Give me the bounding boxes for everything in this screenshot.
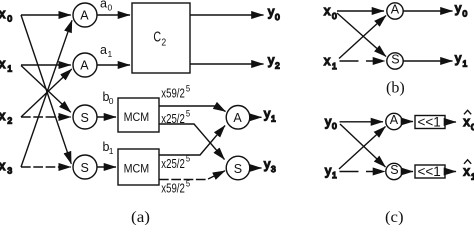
input label x0 (0, 7, 12, 23)
output label y3 (264, 158, 276, 175)
wire x3 to subtractor S2 dashed (21, 166, 71, 168)
wire MCM2 x25 output to adder A3 (159, 126, 225, 156)
wire c y0 to adder A5 (340, 121, 384, 123)
svg-text:x: x (464, 115, 471, 129)
svg-text:0: 0 (275, 12, 280, 22)
svg-text:y: y (455, 52, 462, 66)
value label x25/2^5 on MCM1 bottom output (161, 109, 190, 126)
wire MCM1 x25 output to subtractor S3 (159, 124, 225, 160)
svg-text:S: S (234, 162, 242, 176)
svg-text:a: a (100, 0, 107, 11)
wire A3 to y1 (250, 116, 262, 118)
svg-text:0: 0 (7, 13, 12, 23)
svg-text:5: 5 (186, 178, 190, 188)
value label x25/2^5 on MCM2 top output (161, 154, 190, 171)
value label x59/2^5 on MCM2 bottom output (161, 178, 190, 195)
svg-text:y: y (455, 2, 462, 16)
svg-text:2: 2 (275, 61, 280, 71)
subtractor S5 (386, 163, 402, 180)
svg-text:(a): (a) (131, 209, 150, 225)
subtractor S3 (226, 156, 250, 180)
svg-text:y: y (264, 158, 271, 172)
svg-text:3: 3 (271, 164, 276, 174)
wire x2 to adder A2 diagonal (21, 69, 72, 117)
wire A4 to y0 (403, 10, 452, 12)
wire x0 to subtractor S2 diagonal (21, 15, 71, 164)
node label a0 (100, 0, 113, 13)
node label a1 (100, 43, 113, 59)
wire x3 to adder A1 diagonal (21, 20, 72, 167)
svg-text:x59/2: x59/2 (161, 86, 185, 101)
wire S1 to MCM1 (97, 116, 116, 118)
wire b x1 to adder A4 diagonal (339, 16, 386, 59)
svg-text:1: 1 (271, 114, 276, 124)
wire S2 to MCM2 (97, 166, 116, 168)
wire b x0 to subtractor S4 diagonal (337, 13, 386, 57)
svg-text:1: 1 (332, 170, 337, 180)
svg-text:MCM: MCM (124, 110, 150, 124)
svg-text:0: 0 (463, 9, 468, 19)
svg-text:MCM: MCM (124, 161, 150, 175)
shifter block 1 (415, 114, 445, 129)
svg-text:x: x (0, 109, 6, 123)
output label y0 (268, 5, 280, 22)
svg-text:x: x (0, 7, 6, 21)
svg-text:3: 3 (7, 165, 12, 175)
svg-text:a: a (100, 43, 107, 57)
svg-text:0: 0 (108, 3, 113, 13)
svg-text:S: S (81, 111, 89, 125)
wire b x0 to adder A4 (337, 10, 384, 12)
svg-text:A: A (80, 8, 89, 22)
svg-text:<<1: <<1 (418, 164, 441, 179)
svg-text:x: x (0, 159, 6, 173)
svg-text:y: y (264, 107, 271, 121)
svg-text:S: S (390, 163, 398, 177)
svg-text:1: 1 (7, 63, 12, 73)
subtractor S2 (73, 155, 97, 179)
wire shifter 1 to x0hat (445, 121, 456, 123)
input label y1 part c (325, 164, 337, 180)
input label x0 part b (324, 4, 337, 21)
input label x3 (0, 159, 12, 175)
adder A5 (386, 113, 402, 130)
svg-text:2: 2 (7, 115, 12, 125)
svg-text:S: S (81, 161, 89, 175)
svg-text:C: C (153, 30, 161, 46)
svg-text:y: y (325, 164, 332, 178)
svg-text:x: x (0, 57, 6, 71)
svg-text:5: 5 (186, 83, 190, 93)
wire x0 to adder A1 (21, 14, 71, 16)
svg-text:0: 0 (332, 121, 337, 131)
output label y0 part b (455, 2, 468, 19)
block C2 (132, 3, 190, 73)
svg-text:0: 0 (332, 11, 337, 21)
wire MCM2 x59 output to subtractor S3 dashed (159, 171, 225, 180)
wire c y1 to subtractor S5 dashed (340, 171, 386, 173)
wire S3 to y3 (250, 167, 262, 169)
wire S4 to y1 (403, 60, 452, 62)
wire C2 to y2 (190, 63, 264, 65)
output label y2 (268, 54, 280, 71)
wire b x1 to subtractor S4 dashed (340, 60, 386, 62)
input label x1 (0, 57, 12, 73)
svg-text:x: x (324, 4, 331, 18)
adder A3 (226, 106, 250, 130)
shifter block 2 (415, 164, 445, 179)
svg-text:A: A (390, 113, 399, 127)
svg-text:A: A (80, 58, 89, 72)
svg-text:(c): (c) (385, 209, 404, 225)
output label y1 (264, 107, 276, 124)
node label b0 (103, 90, 114, 106)
block MCM1 (118, 98, 159, 132)
svg-text:5: 5 (186, 109, 190, 119)
svg-text:x25/2: x25/2 (161, 156, 185, 171)
input label y0 part c (325, 115, 337, 131)
svg-text:(b): (b) (386, 80, 405, 97)
adder A4 (387, 3, 403, 20)
svg-text:<<1: <<1 (418, 114, 441, 129)
wire S5 to shifter 2 (402, 171, 413, 173)
adder A1 (73, 3, 97, 27)
svg-text:0: 0 (109, 96, 114, 106)
svg-text:y: y (325, 115, 332, 129)
subtractor S1 (73, 105, 97, 129)
svg-text:1: 1 (109, 146, 114, 156)
svg-text:5: 5 (186, 154, 190, 164)
svg-text:1: 1 (332, 61, 337, 71)
svg-text:y: y (268, 5, 275, 19)
wire c y0 to subtractor S5 diagonal (340, 124, 386, 167)
value label x59/2^5 on MCM1 top output (161, 83, 190, 100)
wire C2 to y0 (190, 14, 264, 16)
svg-text:x59/2: x59/2 (161, 181, 185, 196)
wire MCM1 x59 output to adder A3 (159, 106, 226, 112)
svg-text:x: x (464, 165, 471, 179)
wire x1 to subtractor S1 diagonal (21, 66, 71, 113)
svg-text:2: 2 (161, 37, 166, 48)
subtractor S4 (387, 53, 403, 70)
input label x2 (0, 109, 12, 125)
adder A2 (73, 53, 97, 77)
wire x2 to subtractor S1 dashed (21, 116, 71, 118)
wire A1 to C2 (97, 14, 130, 16)
wire A5 to shifter 1 (402, 121, 413, 123)
wire x1 to adder A2 (21, 64, 71, 66)
output label x1 hat (464, 160, 474, 182)
wire shifter 2 to x1hat (445, 171, 456, 173)
node label b1 (103, 140, 114, 156)
output label x0 hat (464, 110, 474, 132)
svg-text:1: 1 (463, 59, 468, 69)
wire A2 to C2 (97, 64, 130, 66)
output label y1 part b (455, 52, 468, 69)
svg-text:y: y (268, 54, 275, 68)
svg-text:x: x (324, 54, 331, 68)
svg-text:A: A (391, 3, 400, 17)
svg-text:1: 1 (108, 49, 113, 59)
svg-text:A: A (233, 111, 242, 125)
block MCM2 (118, 149, 159, 185)
wire c y1 to adder A5 diagonal (339, 127, 386, 170)
input label x1 part b (324, 54, 337, 71)
svg-text:S: S (391, 53, 399, 67)
